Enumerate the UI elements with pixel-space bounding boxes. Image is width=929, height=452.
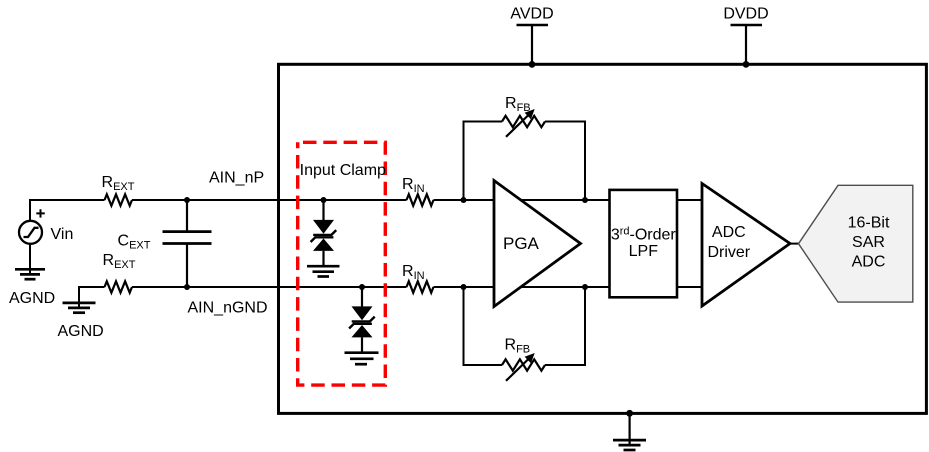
svg-text:SAR: SAR <box>852 234 885 251</box>
node junction cap bottom <box>184 284 190 290</box>
resistor R_IN (bottom) <box>407 281 434 292</box>
DVDD power symbol <box>731 25 763 64</box>
voltage source Vin <box>19 221 42 244</box>
wire Vin bottom to AGND <box>29 244 31 274</box>
wire R_IN top to PGA <box>434 199 495 201</box>
svg-text:ADC: ADC <box>852 254 886 271</box>
resistor R_EXT (top) <box>105 194 133 205</box>
capacitor C_EXT <box>163 200 212 287</box>
svg-text:AGND: AGND <box>9 290 55 307</box>
feedback loop bottom wires <box>464 287 586 365</box>
svg-text:AIN_nP: AIN_nP <box>209 170 264 187</box>
svg-text:Vin: Vin <box>51 226 74 243</box>
ground (top clamp) <box>307 266 340 276</box>
resistor R_FB (bottom, variable) <box>502 359 545 370</box>
input clamp dashed box <box>298 142 386 385</box>
plus polarity mark <box>36 209 45 217</box>
TVS clamp diode D2 (bottom) <box>349 287 375 353</box>
arrow of variable resistor R_FB top <box>506 109 535 137</box>
ground AGND (under Vin) <box>15 269 45 279</box>
svg-text:AVDD: AVDD <box>510 6 553 23</box>
resistor R_FB (top, variable) <box>502 116 545 127</box>
ground (bottom clamp) <box>345 353 379 365</box>
wire top rail R_EXT to PGA <box>132 199 407 201</box>
ground AGND (bottom rail source) <box>63 303 96 313</box>
block 16-Bit SAR ADC <box>799 185 913 302</box>
resistor R_IN (top) <box>407 194 434 205</box>
op-amp ADC Driver <box>702 184 790 307</box>
node junction fb top right <box>582 197 588 203</box>
node AVDD junction <box>529 61 536 68</box>
node junction bottom ground <box>626 410 633 417</box>
svg-text:Input Clamp: Input Clamp <box>300 162 386 179</box>
wire LPF to ADC driver top <box>677 199 702 201</box>
node junction clamp top <box>321 197 327 203</box>
svg-text:AIN_nGND: AIN_nGND <box>188 300 268 317</box>
svg-text:DVDD: DVDD <box>723 6 768 23</box>
resistor R_EXT (bottom) <box>105 281 133 292</box>
wire PGA output bottom <box>520 286 610 288</box>
node junction fb bottom right <box>582 284 588 290</box>
wire LPF to ADC driver bottom <box>677 286 702 288</box>
wire Vin top to R_EXT <box>30 200 105 221</box>
svg-text:Driver: Driver <box>707 244 750 261</box>
wire bottom rail R_EXT to PGA <box>132 286 407 288</box>
wire box to ground <box>628 413 630 445</box>
node junction fb bottom left <box>461 284 467 290</box>
svg-text:ADC: ADC <box>712 224 746 241</box>
device outline box U1 <box>279 64 927 413</box>
wire AGND up to bottom rail <box>79 287 105 308</box>
node junction fb top left <box>461 197 467 203</box>
svg-text:16-Bit: 16-Bit <box>848 215 890 232</box>
wire PGA output top <box>520 199 610 201</box>
wire R_IN bottom to PGA <box>434 286 495 288</box>
ground (device bottom) <box>613 440 646 450</box>
TVS clamp diode D1 (top) <box>311 200 337 267</box>
wire driver to ADC <box>790 243 799 245</box>
node junction cap top <box>184 197 190 203</box>
svg-text:PGA: PGA <box>503 234 540 253</box>
op-amp PGA <box>494 181 581 307</box>
feedback loop top wires <box>464 122 586 201</box>
arrow of variable resistor R_FB bottom <box>506 353 535 381</box>
AVDD power symbol <box>517 25 549 64</box>
svg-text:AGND: AGND <box>58 323 104 340</box>
svg-text:LPF: LPF <box>629 243 659 260</box>
block 3rd-Order LPF <box>610 190 678 297</box>
node DVDD junction <box>743 61 750 68</box>
node junction clamp bottom <box>359 284 365 290</box>
